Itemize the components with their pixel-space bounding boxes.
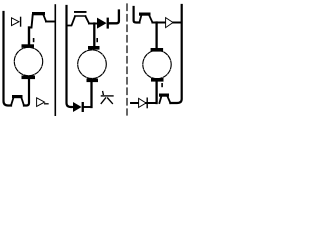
tick mark near top stub M2 [96, 38, 98, 42]
diode VD2 (filled, circuit 2 top) [97, 18, 107, 29]
wire: circuit 2 left lead [67, 6, 72, 107]
wire: circuit 1 top right segment [46, 21, 55, 23]
arrow (open, on circuit 3 top wire) [166, 18, 173, 28]
brush (bottom) motor M3 [151, 78, 164, 82]
wire: circuit 2 bottom to stub corner [84, 106, 92, 108]
diode VD3 (filled, circuit 2 bottom) [73, 102, 82, 112]
wire: fall from plateau, circuit 2 [86, 16, 90, 23]
wire: circuit 2 top stub to brush [93, 24, 95, 47]
wire: circuit 2 bottom segment [71, 106, 73, 108]
motor M2 armature circle [78, 50, 107, 79]
wire: circuit 2 top horizontal at stub junction [89, 23, 97, 25]
wire: circuit 1 top stub [28, 28, 30, 45]
divider line (dashed) between circuit 2 and 3 [126, 4, 128, 115]
divider line (solid) between circuit 1 and 2 [54, 5, 56, 116]
motor M3 armature circle [143, 50, 171, 78]
wire: circuit 1 bottom segment to motor stub [24, 79, 29, 106]
thermal protector ST1 (bottom bump, circuit 1) [11, 98, 14, 106]
motor M1 armature circle [14, 47, 42, 75]
wire: circuit 3 bottom-left segment [131, 102, 156, 104]
thermal protector ST3 (circuit 2 top): plateau [75, 15, 86, 17]
wire: circuit 3 top stub [155, 23, 157, 49]
wire: circuit 3 bottom-right segment [170, 5, 181, 103]
tick mark near top stub M1 [33, 38, 35, 42]
tick mark near bottom stub M3 [161, 83, 163, 87]
wire: circuit 3 top horizontal [152, 22, 181, 24]
diode VD4 (outline, circuit 3 bottom) [139, 98, 146, 107]
diode VD1 (outline, floating, circuit 1 top-left) [12, 18, 20, 26]
label character 六 (circuit 2 bottom-right) [101, 92, 113, 104]
brush (bottom) motor M2 [87, 79, 99, 83]
brush (top) motor M2 [88, 46, 100, 50]
brush (top) motor M3 [151, 48, 164, 52]
thermal protector ST5 (circuit 3 bottom bump) [159, 96, 161, 103]
wire: circuit 1 left lead [4, 12, 12, 106]
wire: circuit 2 top branch [68, 16, 76, 25]
wire: circuit 3 left lead [134, 7, 140, 23]
wire: circuit 2 top right lead [109, 11, 119, 24]
thermal protector ST2 (top bump, circuit 1) [32, 12, 45, 15]
wire: circuit 3 bottom stub [155, 82, 157, 103]
brush (top) motor M1 [22, 44, 35, 48]
thermal protector ST3 bar above [74, 11, 87, 13]
arrow (outline triangle, circuit 1 bottom-right) [37, 98, 45, 107]
wire: circuit 2 bottom stub [90, 82, 92, 107]
thermal protector ST4 (circuit 3 top) [139, 15, 141, 23]
wire: corner and rise, circuit 1 top [29, 15, 33, 28]
brush (bottom) motor M1 [22, 76, 36, 80]
